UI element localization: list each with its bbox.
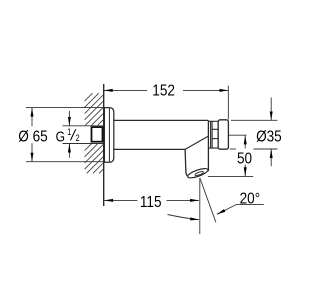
head left edge (185, 149, 189, 177)
G1/2 thread nut (92, 127, 103, 142)
angle 20 degree line (200, 178, 216, 222)
svg-text:Ø 65: Ø 65 (18, 129, 47, 146)
outlet vertical extension line (199, 178, 201, 234)
svg-text:G: G (56, 128, 65, 144)
svg-text:Ø35: Ø35 (256, 128, 282, 145)
label G1/2 with arrows (68, 111, 70, 158)
wall hatching (85, 93, 104, 173)
wall face line (103, 84, 105, 206)
angle leader arrow (217, 204, 264, 214)
spout body bottom edge (114, 148, 185, 150)
dimension 115 (104, 199, 199, 201)
dimension Ø35 (230, 98, 278, 167)
escutcheon flange (104, 108, 113, 163)
spout right end edge (207, 120, 209, 171)
outlet outer ellipse (187, 167, 209, 180)
svg-text:152: 152 (152, 83, 175, 100)
dimension 50 (208, 135, 253, 176)
svg-text:115: 115 (140, 194, 162, 211)
dimension Ø65 (26, 108, 104, 162)
dimension 152 (104, 86, 228, 120)
svg-text:2: 2 (76, 134, 81, 144)
angle arc arrow (168, 215, 200, 220)
svg-text:20°: 20° (240, 190, 261, 207)
G1/2 extension lines (supply stub) (63, 125, 104, 127)
svg-text:50: 50 (237, 150, 252, 167)
knurled ring (208, 121, 218, 148)
spout body top edge (114, 119, 209, 121)
push button (218, 120, 228, 149)
head shoulder diagonal (185, 136, 208, 149)
flange face inner edge (108, 108, 110, 162)
svg-text:1: 1 (67, 127, 72, 137)
outlet inner ellipse (195, 171, 204, 176)
